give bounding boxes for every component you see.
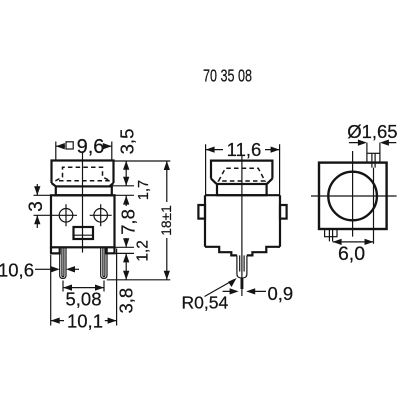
- top tab: [367, 143, 380, 163]
- hole left: [59, 209, 73, 223]
- svg-text:10,1: 10,1: [67, 310, 103, 331]
- dim 18±1: [107, 161, 171, 280]
- led window: [74, 227, 94, 239]
- foot right: [107, 247, 115, 253]
- pin left: [60, 248, 66, 279]
- foot left: [51, 247, 60, 253]
- dashed plunger side: [219, 168, 265, 181]
- dim Ø1,65: [349, 142, 396, 144]
- svg-text:1,7: 1,7: [136, 180, 152, 200]
- svg-text:6,0: 6,0: [338, 243, 365, 265]
- svg-text:Ø1,65: Ø1,65: [347, 121, 397, 142]
- svg-text:0,9: 0,9: [268, 283, 294, 304]
- dim 3 left: [34, 195, 56, 215]
- svg-text:70 35 08: 70 35 08: [203, 67, 252, 87]
- square top: [319, 163, 387, 229]
- centerline side: [241, 155, 243, 296]
- tab left: [198, 205, 205, 219]
- svg-text:5,08: 5,08: [65, 288, 101, 309]
- bottom steps: [205, 247, 280, 256]
- svg-text:10,6: 10,6: [0, 260, 34, 281]
- dim 6,0: [333, 241, 374, 243]
- cap base: [56, 186, 112, 195]
- dim 10,1: [51, 249, 117, 326]
- cap side: [211, 161, 272, 184]
- svg-text:11,6: 11,6: [227, 139, 262, 160]
- bottom tab: [325, 229, 337, 237]
- dim 9,6: [56, 142, 112, 161]
- dim 7,8: [125, 196, 127, 206]
- svg-text:9,6: 9,6: [77, 136, 105, 158]
- dim 3,5: [125, 161, 127, 186]
- svg-text:R0,54: R0,54: [182, 293, 229, 313]
- body front: [51, 195, 115, 247]
- centerline front: [82, 153, 84, 253]
- dim 5,08: [63, 281, 104, 292]
- cap base side: [217, 184, 267, 195]
- dim 0,9: [223, 290, 266, 292]
- svg-text:1,2: 1,2: [135, 240, 152, 262]
- dashed plunger front: [56, 167, 111, 181]
- svg-text:3,5: 3,5: [117, 129, 138, 155]
- dim R0,54: [205, 280, 235, 297]
- dim 1,7: [112, 185, 134, 187]
- cap outline: [52, 161, 114, 187]
- svg-text:3: 3: [26, 201, 47, 212]
- svg-text:7,8: 7,8: [118, 209, 139, 235]
- pin right: [101, 248, 107, 279]
- dim 10,6: [35, 268, 51, 270]
- dim 11,6: [206, 144, 280, 195]
- svg-text:3,8: 3,8: [116, 288, 137, 314]
- centerline h: [311, 195, 397, 197]
- hole right: [94, 209, 108, 223]
- body side: [205, 195, 280, 247]
- centerline v: [352, 151, 354, 237]
- dim 3,8: [125, 253, 127, 279]
- svg-text:18±1: 18±1: [159, 205, 174, 236]
- circle button: [328, 172, 377, 221]
- center pin side: [237, 255, 247, 277]
- dim 1,2: [115, 246, 134, 248]
- tab right: [280, 205, 287, 219]
